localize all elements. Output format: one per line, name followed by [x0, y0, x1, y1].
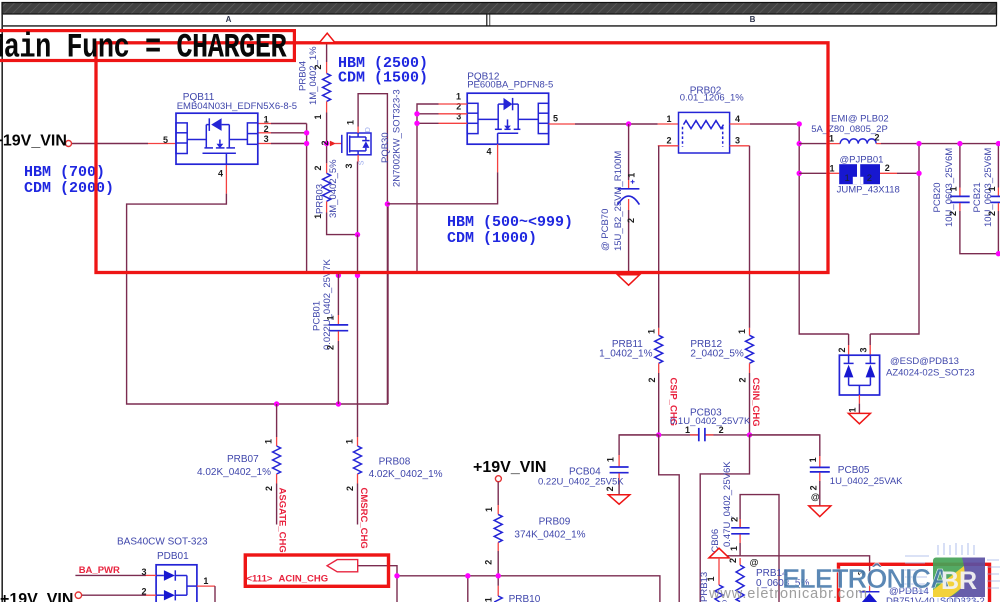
svg-text:BA_PWR: BA_PWR — [79, 565, 120, 576]
svg-text:@: @ — [811, 492, 820, 502]
svg-text:2: 2 — [313, 64, 323, 69]
svg-text:2: 2 — [313, 165, 323, 170]
svg-text:1: 1 — [829, 133, 834, 143]
svg-text:2: 2 — [867, 173, 872, 184]
svg-text:@ PCB70: @ PCB70 — [600, 209, 611, 251]
svg-text:2: 2 — [809, 485, 819, 490]
junction dot PRB07 top — [274, 401, 279, 406]
svg-text:www.eletronicabr.com: www.eletronicabr.com — [708, 586, 868, 602]
pin stub PRB04 pin2 — [326, 62, 328, 73]
ground below PCB04 — [608, 495, 629, 504]
svg-text:1M_0402_1%: 1M_0402_1% — [308, 46, 319, 105]
svg-text:CMSRC_CHG: CMSRC_CHG — [358, 488, 369, 549]
wire drain column lower — [386, 204, 388, 404]
svg-text:1: 1 — [344, 439, 354, 444]
svg-text:4.02K_0402_1%: 4.02K_0402_1% — [197, 467, 271, 478]
wire PQB12 pin1 — [439, 103, 468, 105]
wire PQB12 pin4 — [497, 144, 499, 172]
annotation big ESD red box — [96, 43, 828, 273]
svg-text:2: 2 — [483, 560, 493, 565]
wire PRB02 pin4 out — [730, 123, 750, 125]
svg-text:+19V_VIN: +19V_VIN — [0, 591, 73, 602]
pin stub PRB04 pin1 — [326, 101, 328, 112]
pin stub PQB11 pin5 — [148, 143, 176, 145]
annotation Main Func box — [0, 31, 294, 61]
svg-text:PCB05: PCB05 — [838, 465, 870, 476]
capacitor PCB20 — [950, 144, 1000, 254]
svg-text:2: 2 — [667, 135, 672, 145]
svg-text:2: 2 — [719, 425, 724, 435]
resistor PRB11 — [655, 328, 663, 435]
watermark chip logo — [933, 558, 985, 598]
wire PJPB01 pin2 out — [880, 172, 897, 174]
svg-text:PRB07: PRB07 — [227, 454, 259, 465]
svg-text:1: 1 — [313, 214, 323, 219]
wire +19V_VIN input to PQB11 pin5 — [72, 143, 149, 145]
svg-text:PCB21: PCB21 — [972, 182, 983, 212]
svg-text:CSIN_CHG: CSIN_CHG — [750, 378, 761, 427]
svg-text:4: 4 — [218, 168, 223, 178]
junction dot PCB70 top — [626, 121, 631, 126]
svg-text:1U_0402_25VAK: 1U_0402_25VAK — [830, 476, 903, 487]
svg-text:1: 1 — [325, 315, 335, 320]
inductor PLB02 ferrite — [840, 139, 876, 144]
wire PRB04 column top (from red arrow) — [326, 44, 328, 63]
wire branch down x397 — [396, 576, 398, 602]
svg-text:@ESD@PDB13: @ESD@PDB13 — [890, 356, 959, 367]
junction dots x919 — [916, 141, 921, 146]
wire PQB11 pin1 to gate bus — [258, 123, 271, 125]
capacitor PCB06 — [731, 519, 749, 556]
junction dot source column crossing — [355, 273, 360, 278]
svg-text:2: 2 — [730, 517, 740, 522]
capacitor PCB21 (clipped at edge) — [991, 144, 1000, 254]
svg-text:3: 3 — [859, 347, 869, 352]
svg-text:PDB01: PDB01 — [157, 551, 189, 562]
wire BA_PWR to PDB01 pin3 — [75, 574, 146, 576]
svg-text:3: 3 — [735, 135, 740, 145]
junction dots on x306 bus — [304, 130, 309, 135]
svg-text:1: 1 — [830, 163, 835, 173]
svg-text:1: 1 — [627, 173, 637, 178]
pin stub PRB03 pin2 — [326, 163, 328, 173]
svg-text:0.01_1206_1%: 0.01_1206_1% — [680, 92, 744, 103]
resistor PRB07 with stubs — [273, 404, 281, 525]
wire PJPB01 pin1 — [799, 172, 826, 174]
wire PQB11 pin2 — [258, 132, 271, 134]
pin stub PRB03 pin1 — [326, 201, 328, 212]
svg-text:1: 1 — [667, 114, 672, 124]
svg-text:2: 2 — [948, 211, 958, 216]
power arrow up on PRB04 column — [319, 33, 335, 42]
junction dot drain/PQB12 pin4 — [385, 201, 390, 206]
wire bottom-right bus y556 — [719, 556, 870, 575]
pin stub PQB30 source — [357, 155, 359, 162]
svg-text:1: 1 — [346, 120, 356, 125]
svg-text:AZ4024-02S_SOT23: AZ4024-02S_SOT23 — [886, 367, 975, 378]
resistor PRB12 — [746, 328, 754, 435]
wire CSIP down-left branch — [659, 435, 680, 602]
net flag PDB14 red box (clipped) — [839, 564, 990, 602]
svg-text:1: 1 — [264, 439, 274, 444]
svg-text:PRB08: PRB08 — [379, 456, 411, 467]
pin stub PDB13 pin2 — [848, 345, 850, 355]
svg-text:PE600BA_PDFN8-5: PE600BA_PDFN8-5 — [467, 80, 553, 91]
capacitor PCB03 bars — [698, 428, 700, 441]
wire bottom bus y576 — [397, 576, 660, 602]
wire source run corner up to drain column — [387, 204, 389, 404]
svg-text:EMB04N03H_EDFN5X6-8-5: EMB04N03H_EDFN5X6-8-5 — [177, 101, 297, 112]
svg-text:1: 1 — [606, 457, 616, 462]
wire PRB03 bottom to source column — [327, 213, 358, 235]
svg-text:3M_0402_5%: 3M_0402_5% — [328, 159, 339, 218]
diode pair PDB13 ESD — [839, 355, 879, 395]
pin stub PDB13 pin1 — [858, 395, 860, 404]
svg-text:2: 2 — [875, 133, 880, 143]
sheet header dark bar — [2, 3, 997, 15]
terminal circle +19V_VIN bottom — [75, 592, 81, 598]
wire PCB06 top hook — [740, 495, 779, 602]
svg-text:2: 2 — [738, 377, 748, 382]
junction dots PQB12 gate bus — [414, 111, 419, 116]
svg-text:1: 1 — [729, 546, 739, 551]
svg-text:BAS40CW SOT-323: BAS40CW SOT-323 — [117, 537, 208, 548]
junction dots CSIP/CSIN bus — [656, 432, 661, 437]
svg-text:1: 1 — [456, 92, 461, 102]
svg-text:3: 3 — [264, 134, 269, 144]
net flag ACIN_CHG box — [245, 555, 388, 586]
svg-text:2: 2 — [142, 587, 147, 597]
resistor PRB04 1M_0402_1% — [323, 73, 331, 101]
svg-text:2: 2 — [320, 140, 330, 145]
junction dot gate node — [324, 141, 329, 146]
pin stub PQB30 drain — [357, 127, 359, 134]
svg-text:2_0402_5%: 2_0402_5% — [690, 348, 743, 359]
svg-text:+19V_VIN: +19V_VIN — [0, 132, 67, 149]
capacitor PCB04 branch — [610, 435, 659, 495]
svg-text:5: 5 — [553, 113, 558, 123]
ground below PDB13 — [848, 413, 870, 423]
svg-text:1: 1 — [847, 407, 857, 412]
svg-text:0.1U_0402_25V7K: 0.1U_0402_25V7K — [670, 416, 751, 427]
junction dots bottom bus — [394, 573, 399, 578]
svg-text:PRB09: PRB09 — [539, 516, 571, 527]
wire PQB12 pin2 — [439, 113, 468, 115]
svg-text:CDM (1500): CDM (1500) — [338, 70, 428, 87]
pin stub PDB13 pin3 — [869, 345, 871, 355]
svg-text:+19V_VIN: +19V_VIN — [473, 459, 546, 476]
power arrow up PRB13 — [709, 548, 729, 558]
svg-text:2: 2 — [264, 124, 269, 134]
capacitor PCB05 branch — [750, 435, 830, 506]
wire PLB02 pin2 out — [876, 143, 881, 145]
svg-text:2: 2 — [728, 558, 738, 563]
svg-text:1: 1 — [484, 507, 494, 512]
svg-text:Main Func = CHARGER: Main Func = CHARGER — [0, 28, 287, 67]
svg-text:1: 1 — [737, 329, 747, 334]
svg-text:PRB03: PRB03 — [314, 184, 325, 214]
op-amp?? no: MOSFET package PQB11 EMB04N03H — [176, 113, 258, 164]
svg-text:2: 2 — [987, 211, 997, 216]
svg-text:JUMP_43X118: JUMP_43X118 — [837, 184, 900, 195]
svg-text:1: 1 — [647, 329, 657, 334]
wire x799 distribution column — [799, 124, 848, 334]
svg-text:1: 1 — [264, 114, 269, 124]
diode pair PDB01 BAS40CW — [156, 565, 197, 602]
ground below PCB05 — [809, 506, 831, 517]
wire CSIP/CSIN cross bus y435 — [619, 434, 699, 436]
wire PQB30 source down — [357, 162, 359, 235]
wire PRB02 pin2 down (CSIP sense) — [658, 145, 679, 147]
wire PLB02 pin1 — [799, 143, 826, 145]
watermark logo pins decoration — [902, 543, 1000, 602]
svg-text:2: 2 — [626, 218, 636, 223]
wire PDB01 pin1 out — [197, 585, 215, 587]
junction dots x799 column — [797, 121, 802, 126]
svg-text:HBM (500~<999): HBM (500~<999) — [447, 214, 573, 231]
svg-text:@: @ — [750, 558, 759, 568]
resistor PRB13 stub (clipped) — [715, 558, 723, 602]
svg-text:CDM (2000): CDM (2000) — [24, 180, 114, 197]
wire gate bus vertical x306 — [306, 124, 308, 273]
wire x919 column to PDB13 pin3 — [870, 144, 919, 334]
resistor PRB14 — [736, 558, 744, 602]
wire common source column down to PRB08 — [357, 235, 359, 437]
pin stub PQB30 gate — [335, 143, 342, 145]
svg-text:HBM (700): HBM (700) — [24, 164, 105, 181]
svg-text:2: 2 — [456, 102, 461, 112]
gate hook arrow — [330, 141, 336, 147]
svg-text:1: 1 — [203, 576, 208, 586]
svg-text:A: A — [226, 15, 232, 24]
svg-text:ACIN_CHG: ACIN_CHG — [279, 574, 329, 585]
svg-text:1: 1 — [845, 173, 850, 184]
sheet header zone strip — [2, 3, 997, 26]
svg-text:0.47U_0402_25V6K: 0.47U_0402_25V6K — [722, 461, 733, 547]
wire CSIN down-left branch — [700, 435, 749, 602]
diode PDB14 (clipped) — [860, 575, 880, 602]
wire PQB12 pin5 to PRB02 pin1 — [549, 123, 575, 125]
capacitor PCB70 15U polarized — [618, 124, 640, 271]
wire +19V_VIN to PDB01 pin2 — [82, 594, 146, 596]
ground arrow below PCB70 — [618, 275, 640, 285]
junction dot source node — [355, 232, 360, 237]
svg-text:<111>: <111> — [247, 573, 273, 584]
wire PQB11 pin3 — [258, 143, 271, 145]
svg-text:BR: BR — [941, 567, 977, 595]
wire ACIN_CHG to bottom bus — [358, 566, 397, 576]
wire PRB02 pin3 down (CSIN sense) — [730, 145, 750, 147]
svg-text:PRB10: PRB10 — [509, 594, 541, 602]
svg-text:1: 1 — [685, 425, 690, 435]
transistor PQB30 2N7002KW — [342, 133, 371, 155]
sheet border left edge — [1, 14, 3, 602]
svg-text:2: 2 — [326, 345, 336, 350]
svg-text:2: 2 — [345, 486, 355, 491]
resistor PRB02 0.01_1206 (sense) — [679, 112, 730, 153]
svg-text:2: 2 — [605, 486, 615, 491]
resistor PRB08 with stubs — [354, 437, 362, 525]
svg-text:4: 4 — [735, 114, 740, 124]
svg-text:0.22U_0402_25V5K: 0.22U_0402_25V5K — [538, 477, 624, 488]
wire PQB12 pin3 — [439, 122, 468, 124]
MOSFET package PQB12 PE600BA — [467, 93, 548, 144]
svg-text:5: 5 — [163, 135, 168, 145]
svg-text:CDM (1000): CDM (1000) — [447, 230, 537, 247]
svg-text:PCB20: PCB20 — [932, 182, 943, 212]
svg-text:374K_0402_1%: 374K_0402_1% — [514, 529, 585, 540]
terminal circle +19V_VIN — [66, 141, 72, 147]
wire PQB11 pin4 source run — [225, 164, 227, 193]
svg-text:15U_B2_25VM_R100M: 15U_B2_25VM_R100M — [613, 151, 624, 251]
resistor PRB10 stub (clipped) — [494, 576, 502, 602]
svg-text:3: 3 — [142, 567, 147, 577]
resistor PRB09 — [494, 482, 502, 576]
svg-text:4.02K_0402_1%: 4.02K_0402_1% — [369, 469, 443, 480]
svg-text:S: S — [359, 160, 366, 165]
svg-text:@PJPB01: @PJPB01 — [840, 154, 884, 165]
wire PRB04 to gate junction — [326, 113, 328, 164]
svg-text:PQB30: PQB30 — [380, 132, 391, 163]
svg-text:1: 1 — [987, 186, 997, 191]
svg-text:4: 4 — [487, 147, 492, 157]
junction dot PCB01 top — [336, 273, 341, 278]
svg-text:2: 2 — [264, 486, 274, 491]
junction dot PCB20 top — [957, 141, 962, 146]
svg-text:ASGATE_CHG: ASGATE_CHG — [277, 488, 288, 553]
junction dot PCB01 bottom — [336, 401, 341, 406]
capacitor PCB01 0.022U — [329, 273, 349, 404]
svg-text:2: 2 — [837, 347, 847, 352]
wire branch down x468 — [467, 576, 469, 602]
svg-text:2: 2 — [647, 377, 657, 382]
svg-text:2: 2 — [885, 163, 890, 173]
svg-text:B: B — [750, 15, 756, 24]
svg-text:3: 3 — [456, 111, 461, 121]
svg-text:1: 1 — [949, 186, 959, 191]
pentagon arrow ACIN_CHG — [327, 560, 358, 572]
wire PQB30 drain up and over — [358, 94, 387, 204]
svg-text:2N7002KW_SOT323-3: 2N7002KW_SOT323-3 — [391, 89, 402, 187]
junction dots PCB21 — [996, 141, 1000, 146]
svg-text:1_0402_1%: 1_0402_1% — [599, 348, 652, 359]
svg-text:1: 1 — [808, 457, 818, 462]
resistor PRB03 3M_0402_5% — [323, 173, 331, 201]
wire hidden gate bus under red box bottom — [307, 272, 417, 274]
svg-text:D: D — [365, 127, 372, 132]
svg-text:1: 1 — [313, 114, 323, 119]
terminal circle +19V_VIN mid — [495, 476, 501, 482]
svg-text:3: 3 — [344, 163, 354, 168]
jumper PJPB01 pads — [839, 164, 880, 184]
svg-text:1: 1 — [484, 597, 494, 602]
